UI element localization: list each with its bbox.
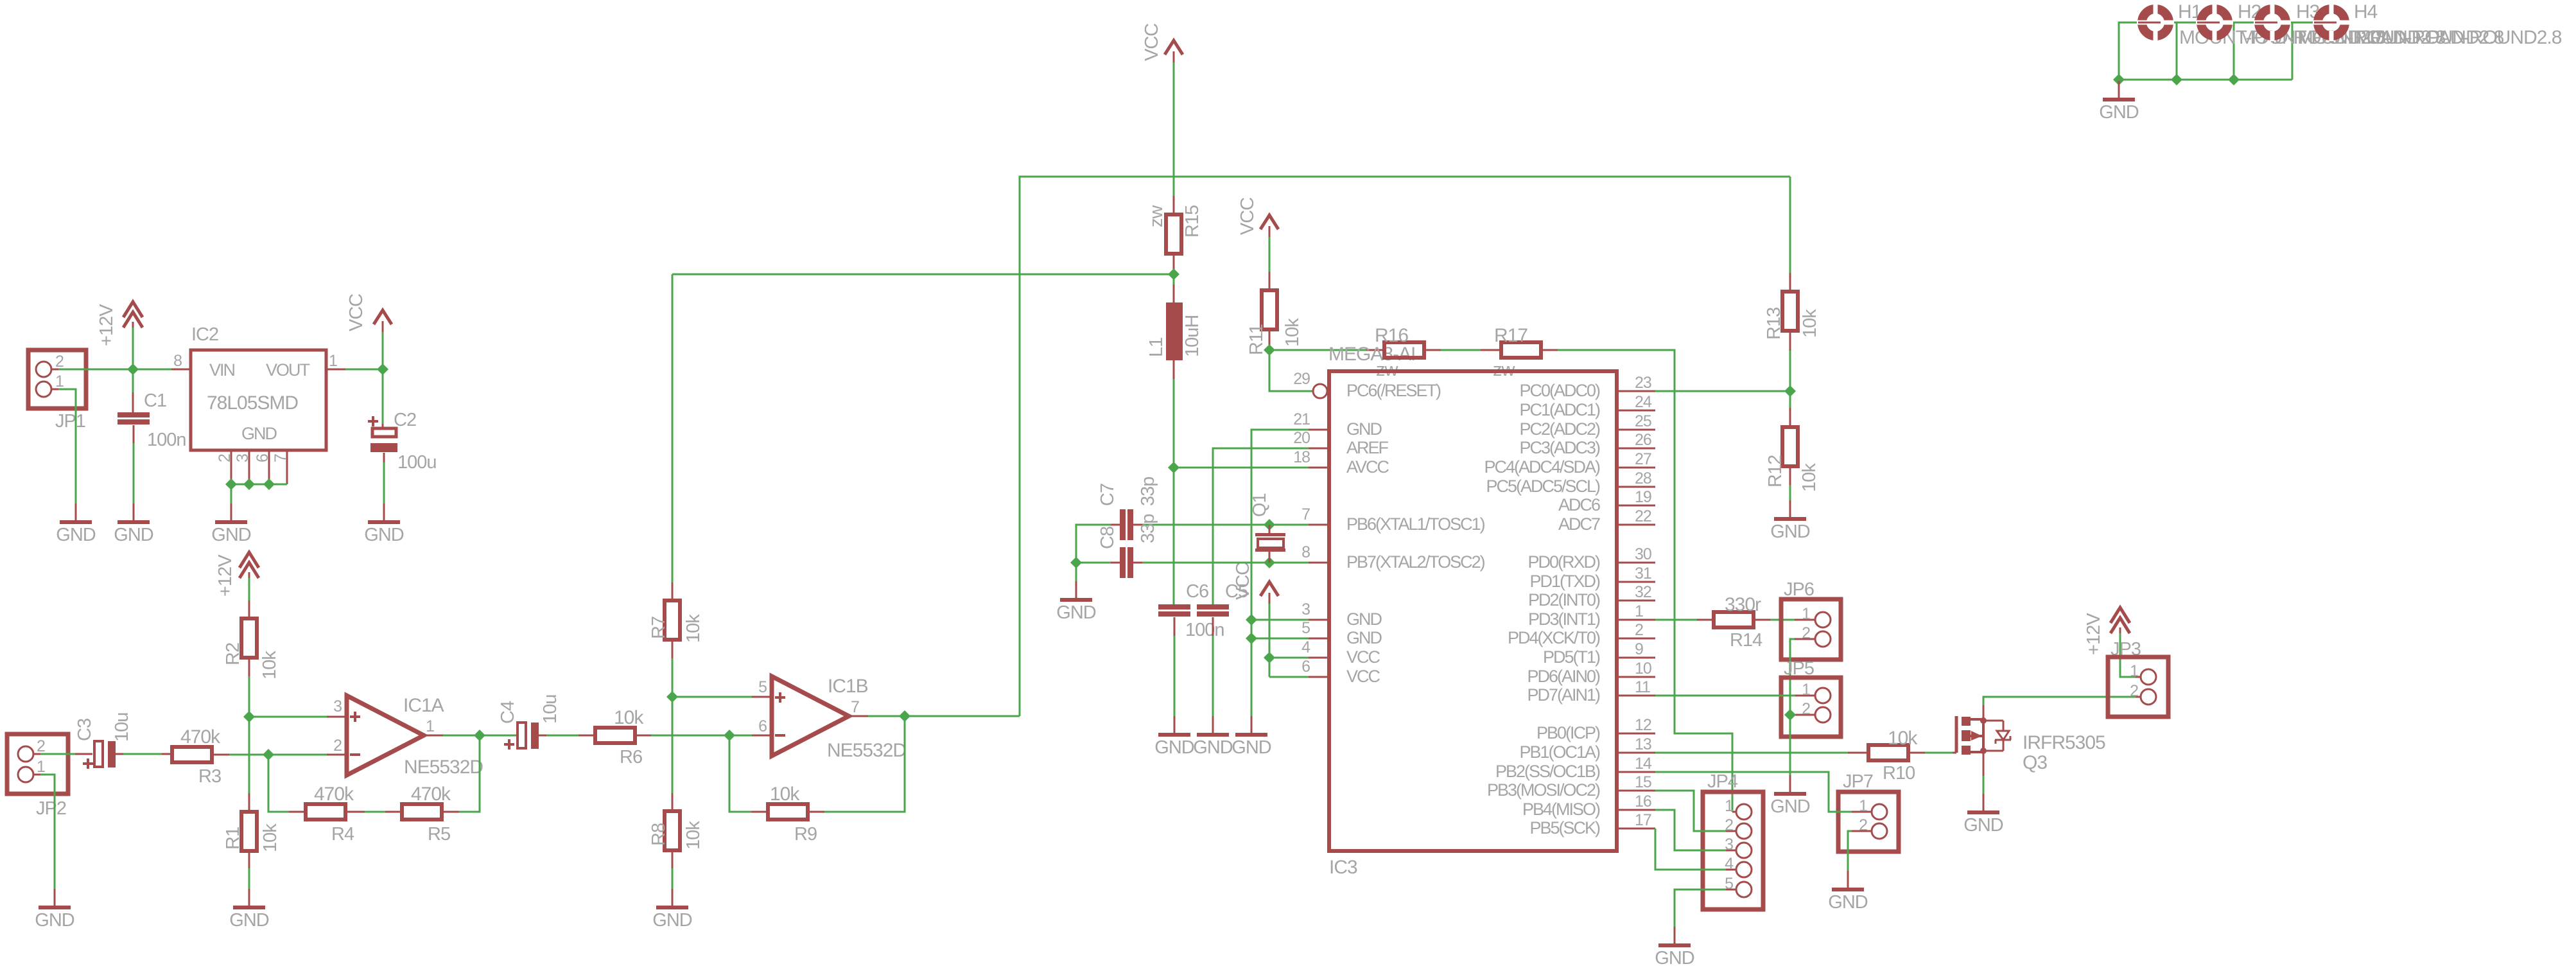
- svg-text:8: 8: [1301, 543, 1310, 561]
- capacitor C3 10u: [94, 741, 103, 767]
- op-amp IC1B: [752, 696, 772, 698]
- ground below Q3: [1983, 794, 1985, 811]
- wire C1 to GND: [133, 425, 135, 443]
- svg-text:2: 2: [216, 454, 234, 462]
- svg-text:14: 14: [1635, 755, 1652, 773]
- svg-text:330r: 330r: [1725, 594, 1761, 615]
- svg-text:PD1(TXD): PD1(TXD): [1529, 572, 1600, 591]
- svg-text:26: 26: [1635, 431, 1651, 449]
- svg-text:6: 6: [254, 454, 272, 462]
- svg-text:R12: R12: [1765, 455, 1786, 487]
- wire Q3 drain to JP3.2: [1983, 705, 1985, 718]
- svg-text:ADC7: ADC7: [1558, 514, 1600, 534]
- node IC1A out: [474, 730, 485, 741]
- svg-text:10k: 10k: [614, 707, 644, 728]
- svg-text:H4: H4: [2354, 1, 2378, 22]
- wire R8 to GND: [672, 850, 674, 868]
- wire to pin 3: [1251, 619, 1309, 621]
- pin 19 ADC6: [1617, 505, 1655, 507]
- svg-text:Q1: Q1: [1249, 493, 1270, 517]
- svg-text:78L05SMD: 78L05SMD: [207, 392, 298, 414]
- wire R2 to R1 divider: [248, 658, 250, 676]
- svg-text:10k: 10k: [260, 823, 281, 852]
- wire C6 to GND: [1174, 617, 1176, 636]
- svg-text:2: 2: [1635, 621, 1643, 639]
- wire feedback down: [268, 755, 289, 812]
- svg-text:IC1B: IC1B: [828, 676, 868, 697]
- pin 16 PB4(MISO): [1617, 809, 1655, 811]
- pin 8 PB7(XTAL2/TOSC2): [1309, 562, 1329, 564]
- resistor R9 10k: [768, 804, 808, 820]
- pin 2 PD4(XCK/T0): [1617, 638, 1655, 640]
- ground below JP7: [1847, 871, 1849, 888]
- svg-text:1: 1: [2130, 662, 2138, 680]
- svg-text:21: 21: [1293, 410, 1310, 428]
- svg-text:10k: 10k: [683, 821, 704, 850]
- svg-text:C2: C2: [394, 410, 416, 430]
- wire C5 to GND: [1212, 617, 1214, 636]
- svg-text:JP2: JP2: [36, 798, 66, 819]
- wire VCC rail left: [672, 274, 1174, 276]
- svg-text:R3: R3: [198, 766, 221, 787]
- wire R5 to IC1A out: [442, 811, 459, 813]
- wire VCC arrow: [382, 332, 384, 369]
- wire junction to C1: [132, 369, 134, 392]
- svg-text:PB1(OC1A): PB1(OC1A): [1519, 742, 1600, 762]
- svg-text:GND: GND: [35, 910, 74, 931]
- svg-text:2: 2: [1725, 816, 1733, 834]
- ground below pin rail: [1251, 716, 1253, 733]
- svg-text:GND: GND: [1770, 796, 1810, 817]
- svg-text:27: 27: [1635, 450, 1651, 468]
- svg-text:GND: GND: [1193, 737, 1233, 758]
- svg-text:12: 12: [1635, 716, 1651, 734]
- svg-text:16: 16: [1635, 793, 1651, 811]
- svg-text:R5: R5: [428, 824, 450, 845]
- node gnd pin3: [1246, 614, 1257, 626]
- svg-text:18: 18: [1293, 448, 1310, 466]
- svg-text:GND: GND: [229, 910, 269, 931]
- wire node to C2: [382, 369, 384, 424]
- svg-text:R17: R17: [1494, 325, 1527, 346]
- wire R4 to R5: [345, 811, 365, 813]
- svg-text:2: 2: [1802, 700, 1810, 718]
- wire Q3 source to GND: [1983, 753, 1985, 776]
- svg-text:GND: GND: [1346, 609, 1382, 629]
- svg-text:R8: R8: [648, 823, 669, 846]
- svg-text:Q3: Q3: [2023, 752, 2047, 773]
- svg-text:470k: 470k: [411, 784, 451, 805]
- resistor R3 470k: [172, 747, 212, 762]
- node mount gnd 3: [2228, 74, 2240, 85]
- wire VOUT to VCC node: [345, 369, 383, 371]
- svg-text:25: 25: [1635, 412, 1651, 430]
- svg-text:R15: R15: [1182, 206, 1203, 238]
- wire VCC to pins 4 6: [1269, 604, 1271, 677]
- svg-text:R16: R16: [1375, 325, 1408, 346]
- resistor R10 10k: [1868, 745, 1908, 760]
- mounting hole H2: [2201, 9, 2228, 36]
- wire VCC to R11: [1269, 237, 1271, 272]
- svg-text:PC3(ADC3): PC3(ADC3): [1519, 438, 1600, 457]
- svg-text:10u: 10u: [540, 695, 561, 724]
- svg-text:VCC: VCC: [1346, 647, 1380, 667]
- capacitor C2 100u: [368, 420, 378, 423]
- svg-text:10: 10: [1635, 660, 1651, 678]
- pin 20 AREF: [1309, 448, 1329, 450]
- node AVCC: [1168, 462, 1179, 473]
- node feedback tap: [263, 749, 274, 760]
- svg-text:GND: GND: [1056, 602, 1096, 623]
- svg-text:3: 3: [1725, 836, 1733, 854]
- svg-text:1: 1: [1802, 605, 1810, 623]
- svg-text:470k: 470k: [180, 726, 221, 748]
- wire VCC rail to R7: [672, 274, 674, 583]
- pin 28 PC5(ADC5/SCL): [1617, 486, 1655, 488]
- svg-text:R14: R14: [1730, 630, 1762, 651]
- resistor R17 zw: [1501, 342, 1541, 358]
- svg-text:100n: 100n: [147, 430, 186, 450]
- resistor R15 zw: [1166, 215, 1181, 254]
- svg-text:8: 8: [173, 352, 182, 370]
- wire R1 to GND: [248, 851, 250, 868]
- svg-text:2: 2: [55, 353, 64, 371]
- svg-text:PB0(ICP): PB0(ICP): [1536, 723, 1600, 742]
- node R6 out: [724, 730, 735, 741]
- resistor R13 10k: [1782, 292, 1798, 331]
- svg-text:1: 1: [1635, 602, 1643, 620]
- pin 32 PD2(INT0): [1617, 600, 1655, 602]
- svg-text:PC2(ADC2): PC2(ADC2): [1519, 419, 1600, 439]
- svg-text:11: 11: [1635, 678, 1650, 696]
- inductor L1 10uH: [1166, 302, 1183, 360]
- wire pin11 to JP5.1: [1655, 695, 1795, 697]
- wire R12 to GND: [1789, 466, 1791, 485]
- wire R3 to IC1A -in: [212, 754, 229, 756]
- wire AVCC to pin 18: [1174, 467, 1309, 469]
- svg-text:zw: zw: [1146, 205, 1167, 228]
- svg-text:GND: GND: [1346, 628, 1382, 647]
- node adc0: [1784, 385, 1796, 397]
- svg-text:VOUT: VOUT: [266, 360, 310, 380]
- svg-text:R9: R9: [794, 824, 817, 845]
- wire pin1 to R14: [1655, 619, 1697, 621]
- ground below JP2: [54, 889, 56, 906]
- wire IC2 ground pins bus: [231, 484, 287, 504]
- svg-text:GND: GND: [211, 525, 251, 545]
- svg-text:GND: GND: [56, 525, 96, 545]
- svg-text:100u: 100u: [397, 452, 437, 473]
- connector JP2: [7, 734, 68, 794]
- node reset: [1264, 344, 1275, 356]
- svg-text:10k: 10k: [259, 651, 280, 679]
- wire +12V to R2: [248, 578, 250, 600]
- wire divider to IC1A +in: [249, 716, 327, 718]
- svg-text:ADC6: ADC6: [1558, 495, 1600, 514]
- pin 8 stub IC2 VIN: [171, 369, 191, 371]
- mounting hole H1: [2142, 9, 2169, 36]
- svg-text:100n: 100n: [1185, 620, 1224, 640]
- wire R11 to reset node: [1269, 329, 1271, 349]
- pin 26 PC3(ADC3): [1617, 448, 1655, 450]
- svg-text:PB2(SS/OC1B): PB2(SS/OC1B): [1495, 762, 1600, 781]
- svg-text:GND: GND: [364, 525, 404, 545]
- VCC symbol above C2: [374, 310, 392, 324]
- pin 27 PC4(ADC4/SDA): [1617, 467, 1655, 469]
- svg-text:PD5(T1): PD5(T1): [1543, 647, 1600, 667]
- svg-text:VIN: VIN: [209, 360, 235, 380]
- svg-text:470k: 470k: [314, 784, 354, 805]
- svg-text:GND: GND: [1231, 737, 1271, 758]
- wire to pin 4: [1269, 657, 1309, 659]
- svg-text:R1: R1: [223, 827, 243, 850]
- ground below C2: [383, 504, 385, 520]
- svg-text:22: 22: [1635, 507, 1651, 525]
- pin 24 PC1(ADC1): [1617, 410, 1655, 412]
- wire JP1.1 to GND: [58, 389, 76, 504]
- pin 25 PC2(ADC2): [1617, 429, 1655, 431]
- node jp5 gnd: [1784, 709, 1796, 721]
- ground below R8: [672, 889, 674, 906]
- wire divider to IC1B +in: [672, 696, 752, 698]
- pin 20 stub: [1309, 448, 1329, 450]
- svg-text:1: 1: [329, 352, 337, 370]
- wire R6 to IC1B -in: [635, 735, 651, 737]
- node IC1B +in divider: [666, 691, 678, 703]
- svg-text:GND: GND: [2099, 102, 2139, 123]
- wire R9 to out: [808, 811, 824, 813]
- node VCC out: [377, 364, 388, 375]
- svg-text:33p: 33p: [1138, 477, 1158, 506]
- capacitor C4 10u: [518, 723, 526, 748]
- wire GND pin 21 rail: [1251, 430, 1309, 716]
- svg-text:3: 3: [333, 697, 342, 715]
- svg-text:15: 15: [1635, 773, 1651, 791]
- svg-text:R6: R6: [620, 747, 642, 767]
- svg-text:1: 1: [1802, 681, 1810, 699]
- resistor R16 zw: [1384, 342, 1424, 358]
- svg-text:C1: C1: [144, 390, 166, 411]
- svg-text:GND: GND: [652, 910, 692, 931]
- svg-text:GND: GND: [1828, 892, 1868, 913]
- svg-text:IC1A: IC1A: [403, 695, 444, 716]
- capacitor C8 33p: [1111, 562, 1120, 564]
- wire JP4.5 to GND: [1675, 890, 1726, 927]
- wire JP7.2 to GND: [1852, 830, 1872, 832]
- svg-text:2: 2: [37, 737, 45, 755]
- svg-text:C7: C7: [1097, 484, 1118, 506]
- svg-text:VCC: VCC: [346, 294, 367, 331]
- svg-text:PB5(SCK): PB5(SCK): [1529, 818, 1600, 837]
- resistor R11 10k: [1262, 290, 1277, 329]
- svg-text:AREF: AREF: [1346, 438, 1389, 457]
- pin 4 VCC: [1309, 657, 1329, 659]
- pin 29 bubble: [1313, 384, 1327, 398]
- capacitor C6 100n: [1158, 604, 1190, 609]
- pin 1 PD3(INT1): [1617, 619, 1655, 621]
- resistor R1 10k: [241, 812, 257, 851]
- svg-text:R4: R4: [331, 824, 354, 845]
- power +12V out: [2110, 608, 2130, 623]
- svg-text:PC6(/RESET): PC6(/RESET): [1346, 381, 1441, 400]
- capacitor C5 100n: [1197, 604, 1229, 609]
- transistor Q3 IRFR5305: [1953, 752, 1956, 754]
- svg-text:C8: C8: [1097, 527, 1118, 549]
- pin 9 PD5(T1): [1617, 657, 1655, 659]
- wire IC1B feedback: [729, 735, 751, 812]
- ground below R1: [248, 889, 250, 906]
- wire JP1.2 to IC2 VIN: [58, 369, 171, 371]
- pin 15 PB3(MOSI/OC2): [1617, 790, 1655, 792]
- ground below JP1: [75, 504, 77, 520]
- pin 17 PB5(SCK): [1617, 828, 1655, 830]
- op-amp IC1A: [327, 716, 347, 718]
- wire R14 to JP6.1: [1754, 619, 1770, 621]
- wire pin14 to JP7.1: [1655, 772, 1852, 812]
- svg-text:1: 1: [426, 717, 434, 735]
- svg-text:3: 3: [1301, 600, 1310, 618]
- node gnd pin5: [1246, 633, 1257, 644]
- svg-text:32: 32: [1635, 583, 1651, 601]
- wire reset to pin 29: [1269, 350, 1312, 391]
- svg-text:PD7(AIN1): PD7(AIN1): [1527, 685, 1600, 705]
- svg-text:PC0(ADC0): PC0(ADC0): [1519, 381, 1600, 400]
- svg-text:PC1(ADC1): PC1(ADC1): [1519, 400, 1600, 419]
- svg-text:4: 4: [1725, 855, 1734, 873]
- svg-text:NE5532D: NE5532D: [827, 740, 906, 761]
- wire R7 to divider node: [672, 640, 674, 658]
- svg-text:+12V: +12V: [96, 304, 117, 346]
- node divider to pin3: [243, 711, 255, 723]
- pin 3 GND: [1309, 619, 1329, 621]
- pin 14 PB2(SS/OC1B): [1617, 771, 1655, 773]
- svg-text:GND: GND: [1655, 948, 1694, 969]
- power +12V supply symbol: [123, 302, 143, 317]
- wire JP2.2 to C3: [40, 753, 75, 755]
- resistor R12 10k: [1782, 427, 1798, 466]
- wire XTAL2 pin 8: [1136, 562, 1309, 564]
- wire XTAL1 pin 7: [1136, 524, 1309, 526]
- pin 5 GND: [1309, 638, 1329, 640]
- svg-text:7: 7: [851, 698, 859, 716]
- wire reset to R16: [1269, 349, 1366, 351]
- capacitor C1: [117, 412, 150, 417]
- wire JP6.2 to JP5.2: [1795, 638, 1815, 640]
- svg-text:NE5532D: NE5532D: [404, 757, 483, 778]
- node IC2 gnd pins: [225, 478, 237, 490]
- wire L1 to AVCC node: [1173, 360, 1175, 379]
- svg-text:24: 24: [1635, 393, 1652, 411]
- svg-text:JP4: JP4: [1707, 771, 1738, 792]
- wire IC1A out: [424, 735, 443, 737]
- svg-text:2: 2: [333, 737, 342, 755]
- svg-text:MOUNT-PAD-ROUND2.8: MOUNT-PAD-ROUND2.8: [2355, 27, 2562, 48]
- resistor R8 10k: [665, 811, 680, 850]
- pin 11 PD7(AIN1): [1617, 695, 1655, 697]
- ground below C6: [1174, 716, 1176, 733]
- svg-text:PC5(ADC5/SCL): PC5(ADC5/SCL): [1486, 477, 1600, 496]
- pin 21 stub: [1309, 429, 1329, 431]
- svg-text:10u: 10u: [112, 713, 132, 742]
- ground below JP4: [1674, 927, 1676, 943]
- svg-text:10k: 10k: [683, 614, 704, 643]
- wire mounting holes bus: [2119, 22, 2138, 80]
- svg-text:AVCC: AVCC: [1346, 457, 1389, 477]
- svg-text:JP1: JP1: [55, 411, 85, 432]
- svg-text:IC2: IC2: [191, 324, 218, 345]
- power +12V for opamp: [239, 552, 259, 568]
- wire pin16 to JP4.3: [1655, 810, 1726, 850]
- svg-text:GND: GND: [114, 525, 153, 545]
- wire JP2.1 to GND: [40, 775, 55, 889]
- svg-text:+12V: +12V: [215, 554, 236, 597]
- pin 12 PB0(ICP): [1617, 733, 1655, 735]
- svg-text:PB7(XTAL2/TOSC2): PB7(XTAL2/TOSC2): [1346, 552, 1485, 572]
- svg-text:R7: R7: [648, 617, 669, 639]
- svg-text:PB4(MISO): PB4(MISO): [1522, 800, 1600, 819]
- svg-text:PB6(XTAL1/TOSC1): PB6(XTAL1/TOSC1): [1346, 514, 1485, 534]
- svg-text:PD2(INT0): PD2(INT0): [1528, 590, 1600, 609]
- svg-text:VCC: VCC: [1237, 198, 1258, 235]
- ground below R12: [1789, 500, 1791, 517]
- wire node to R12: [1789, 391, 1791, 408]
- wire R13 to node: [1789, 331, 1791, 351]
- wire C2 to GND: [383, 453, 385, 462]
- wire C4 to R6: [539, 735, 546, 737]
- svg-text:PD6(AIN0): PD6(AIN0): [1527, 667, 1600, 686]
- svg-text:JP6: JP6: [1784, 579, 1814, 600]
- pin 10 PD6(AIN0): [1617, 676, 1655, 678]
- svg-text:VCC: VCC: [1142, 24, 1162, 61]
- svg-text:7: 7: [272, 454, 290, 462]
- node VCC filter: [1168, 268, 1179, 280]
- IC2 bottom pins 2 3 6 7: [231, 450, 232, 484]
- pin 6 VCC: [1309, 676, 1329, 678]
- svg-text:R10: R10: [1883, 763, 1915, 784]
- svg-text:R13: R13: [1764, 308, 1784, 340]
- svg-text:30: 30: [1635, 545, 1651, 563]
- wire pin13 to R10: [1655, 752, 1848, 754]
- svg-text:VCC: VCC: [1346, 667, 1380, 686]
- wire to pin 6: [1269, 676, 1309, 678]
- svg-text:13: 13: [1635, 735, 1651, 753]
- wire loop to R13: [1789, 177, 1791, 273]
- svg-text:20: 20: [1293, 429, 1310, 447]
- power VCC reset: [1260, 215, 1278, 229]
- svg-text:7: 7: [1301, 505, 1310, 523]
- svg-text:5: 5: [1301, 619, 1310, 637]
- svg-text:PB3(MOSI/OC2): PB3(MOSI/OC2): [1487, 780, 1600, 800]
- svg-text:10k: 10k: [1799, 463, 1820, 492]
- svg-text:IRFR5305: IRFR5305: [2023, 732, 2105, 753]
- wire IC1B out: [849, 715, 868, 717]
- power VCC for IC3: [1260, 582, 1278, 596]
- svg-text:C3: C3: [74, 719, 95, 741]
- wire VCC to R15: [1173, 62, 1175, 196]
- node mount gnd 2: [2171, 74, 2182, 85]
- node cap gnd: [1070, 557, 1082, 568]
- pin 21 GND: [1309, 429, 1329, 431]
- wire node to L1: [1173, 274, 1175, 285]
- svg-text:31: 31: [1635, 565, 1651, 583]
- svg-text:10uH: 10uH: [1182, 315, 1203, 357]
- pin 22 ADC7: [1617, 524, 1655, 526]
- ground below IC2: [231, 504, 232, 520]
- pin 30 PD0(RXD): [1617, 562, 1655, 564]
- svg-text:4: 4: [1301, 638, 1310, 656]
- svg-text:1: 1: [1859, 797, 1867, 815]
- svg-text:23: 23: [1635, 374, 1651, 392]
